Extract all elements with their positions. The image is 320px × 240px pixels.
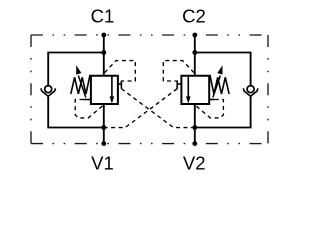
svg-text:V1: V1 bbox=[91, 153, 114, 174]
svg-text:V2: V2 bbox=[183, 153, 206, 174]
svg-text:C2: C2 bbox=[182, 6, 206, 27]
svg-text:C1: C1 bbox=[91, 6, 115, 27]
